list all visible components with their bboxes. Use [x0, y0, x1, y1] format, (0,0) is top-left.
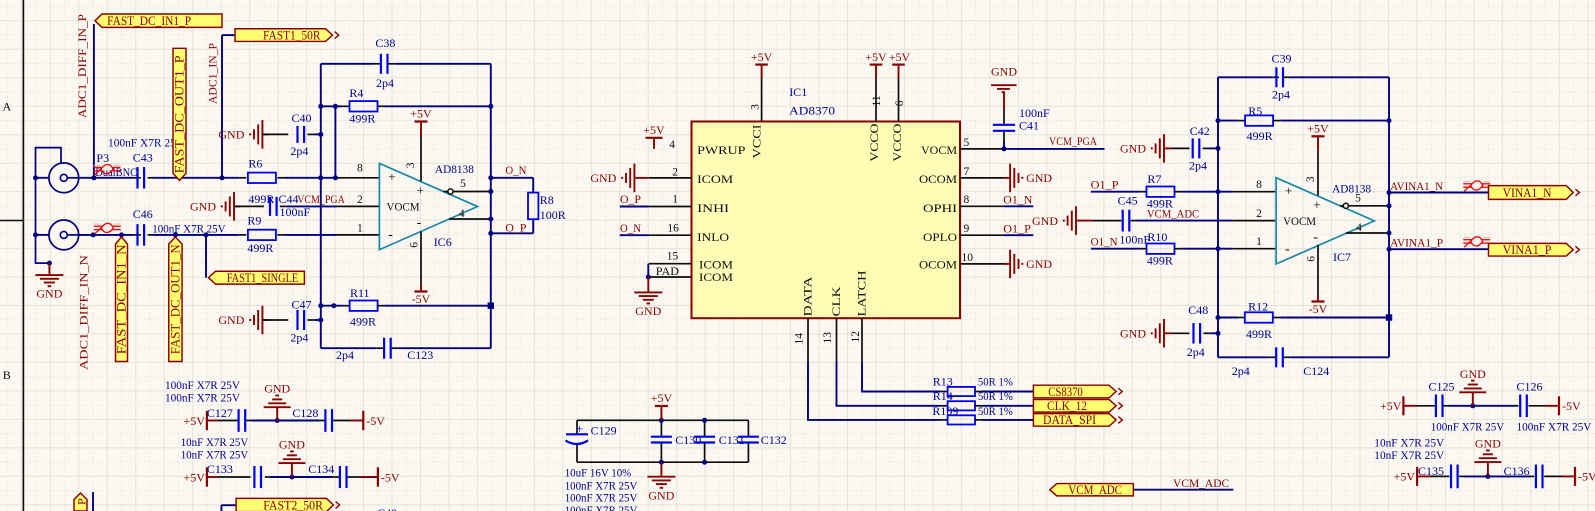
- svg-text:VOCM: VOCM: [921, 143, 957, 157]
- svg-text:R5: R5: [1248, 104, 1262, 118]
- svg-text:C130: C130: [675, 433, 701, 447]
- svg-text:3: 3: [405, 162, 417, 168]
- svg-text:IC1: IC1: [789, 85, 807, 99]
- svg-text:AD8138: AD8138: [435, 162, 474, 176]
- svg-text:8: 8: [964, 194, 970, 206]
- svg-text:C129: C129: [591, 423, 617, 437]
- svg-text:+5V: +5V: [889, 50, 911, 64]
- svg-text:-5V: -5V: [381, 470, 400, 484]
- svg-text:VCM_ADC: VCM_ADC: [1147, 207, 1199, 221]
- svg-text:AVINA1_P: AVINA1_P: [1390, 235, 1443, 249]
- svg-text:O_P: O_P: [620, 192, 641, 206]
- svg-text:2p4: 2p4: [1187, 345, 1205, 359]
- svg-text:GND: GND: [218, 313, 244, 327]
- svg-text:2p4: 2p4: [290, 144, 308, 158]
- svg-text:12: 12: [850, 331, 862, 343]
- svg-text:GND: GND: [1120, 142, 1146, 156]
- svg-text:LATCH: LATCH: [855, 270, 869, 316]
- svg-text:C44: C44: [279, 192, 299, 206]
- svg-text:P: P: [75, 498, 89, 505]
- svg-text:OPLO: OPLO: [923, 230, 957, 244]
- svg-text:2p4: 2p4: [1232, 364, 1250, 378]
- svg-text:-5V: -5V: [1578, 470, 1595, 484]
- svg-text:11: 11: [871, 95, 883, 106]
- svg-text:5: 5: [964, 137, 970, 149]
- svg-text:FAST2_50R: FAST2_50R: [263, 498, 324, 511]
- svg-text:C49: C49: [377, 506, 397, 511]
- svg-text:2p4: 2p4: [290, 331, 308, 345]
- svg-text:GND: GND: [590, 171, 616, 185]
- svg-text:C41: C41: [1019, 118, 1039, 132]
- svg-text:ICOM: ICOM: [697, 172, 733, 186]
- svg-text:C134: C134: [308, 462, 334, 476]
- svg-text:100nF: 100nF: [280, 205, 311, 219]
- svg-text:8: 8: [357, 163, 363, 175]
- svg-text:R9: R9: [247, 214, 261, 228]
- svg-text:9: 9: [964, 223, 970, 235]
- svg-text:100R: 100R: [540, 208, 566, 222]
- svg-text:GND: GND: [648, 488, 674, 502]
- svg-text:100nF X7R 25V: 100nF X7R 25V: [1517, 420, 1592, 434]
- svg-text:1: 1: [357, 223, 363, 235]
- svg-text:499R: 499R: [1246, 327, 1272, 341]
- svg-text:PWRUP: PWRUP: [697, 143, 746, 157]
- svg-text:OPHI: OPHI: [923, 201, 957, 215]
- svg-text:+5V: +5V: [1307, 121, 1329, 135]
- svg-text:B: B: [3, 368, 11, 382]
- svg-text:C133: C133: [207, 462, 233, 476]
- svg-text:50R 1%: 50R 1%: [978, 375, 1013, 389]
- svg-text:3: 3: [1305, 176, 1317, 182]
- svg-text:FAST1_SINGLE: FAST1_SINGLE: [227, 271, 299, 285]
- svg-text:10nF X7R 25V: 10nF X7R 25V: [181, 447, 249, 461]
- svg-text:4: 4: [669, 139, 675, 151]
- svg-text:5: 5: [1355, 192, 1361, 204]
- svg-text:C38: C38: [375, 36, 395, 50]
- svg-text:VCCO: VCCO: [867, 123, 881, 161]
- svg-text:-5V: -5V: [1562, 399, 1581, 413]
- svg-text:INLO: INLO: [697, 230, 729, 244]
- svg-text:ADC1_DIFF_IN_P: ADC1_DIFF_IN_P: [75, 14, 89, 118]
- svg-text:O_N: O_N: [620, 221, 641, 235]
- svg-text:INHI: INHI: [697, 201, 729, 215]
- svg-text:+5V: +5V: [643, 123, 665, 137]
- svg-text:+5V: +5V: [865, 50, 887, 64]
- svg-text:C124: C124: [1303, 364, 1329, 378]
- svg-text:+5V: +5V: [183, 414, 205, 428]
- svg-text:VCCI: VCCI: [750, 124, 764, 158]
- svg-text:GND: GND: [36, 287, 62, 301]
- svg-text:GND: GND: [1032, 214, 1058, 228]
- svg-text:-: -: [1313, 230, 1318, 245]
- svg-text:VCCO: VCCO: [890, 123, 904, 161]
- svg-text:+5V: +5V: [1394, 470, 1416, 484]
- svg-text:R13: R13: [933, 375, 953, 389]
- svg-text:499R: 499R: [349, 112, 375, 126]
- svg-text:PAD: PAD: [656, 264, 680, 278]
- svg-text:C128: C128: [292, 406, 318, 420]
- svg-text:100nF X7R 25V: 100nF X7R 25V: [165, 391, 240, 405]
- svg-text:GND: GND: [991, 64, 1017, 78]
- svg-text:C126: C126: [1517, 380, 1543, 394]
- svg-text:VOCM: VOCM: [1283, 214, 1316, 228]
- svg-text:499R: 499R: [350, 315, 376, 329]
- svg-text:O1_N: O1_N: [1091, 235, 1118, 249]
- svg-text:+: +: [417, 183, 424, 198]
- svg-text:5: 5: [460, 178, 466, 190]
- svg-text:O1_P: O1_P: [1003, 221, 1031, 235]
- svg-text:C39: C39: [1272, 52, 1292, 66]
- svg-text:O_N: O_N: [505, 163, 526, 177]
- svg-text:ADC1_IN_P: ADC1_IN_P: [206, 43, 220, 104]
- svg-text:VCM_PGA: VCM_PGA: [297, 192, 345, 206]
- svg-text:DATA: DATA: [801, 276, 815, 316]
- svg-text:2p4: 2p4: [336, 348, 354, 362]
- svg-text:6: 6: [894, 100, 906, 106]
- svg-text:2: 2: [357, 194, 363, 206]
- svg-text:FAST_DC_OUT1_P: FAST_DC_OUT1_P: [173, 55, 187, 173]
- svg-text:OCOM: OCOM: [919, 258, 957, 272]
- svg-text:C42: C42: [1190, 124, 1210, 138]
- svg-text:-: -: [388, 228, 393, 243]
- svg-text:1: 1: [1256, 236, 1262, 248]
- svg-text:AD8370: AD8370: [789, 104, 835, 118]
- svg-text:R8: R8: [540, 193, 554, 207]
- svg-text:-: -: [417, 216, 422, 231]
- svg-text:GND: GND: [279, 438, 305, 452]
- svg-text:VINA1_P: VINA1_P: [1503, 243, 1552, 257]
- svg-text:C127: C127: [207, 406, 233, 420]
- svg-text:13: 13: [822, 332, 834, 344]
- svg-text:C123: C123: [407, 348, 433, 362]
- svg-text:C47: C47: [292, 298, 312, 312]
- svg-text:ICOM: ICOM: [699, 270, 733, 284]
- svg-text:R12: R12: [1248, 299, 1268, 313]
- svg-text:GND: GND: [1026, 257, 1052, 271]
- svg-text:OCOM: OCOM: [919, 172, 957, 186]
- svg-text:GND: GND: [190, 200, 216, 214]
- svg-text:499R: 499R: [247, 241, 273, 255]
- svg-text:C131: C131: [719, 433, 745, 447]
- svg-text:GND: GND: [218, 128, 244, 142]
- svg-text:+5V: +5V: [651, 391, 673, 405]
- svg-text:R6: R6: [248, 157, 262, 171]
- svg-text:R10: R10: [1147, 230, 1167, 244]
- svg-text:+: +: [1285, 183, 1292, 198]
- svg-text:-5V: -5V: [1309, 302, 1328, 316]
- svg-text:C125: C125: [1429, 380, 1455, 394]
- svg-text:C40: C40: [292, 111, 312, 125]
- svg-text:O1_N: O1_N: [1003, 192, 1032, 206]
- svg-text:C135: C135: [1418, 464, 1444, 478]
- svg-text:C136: C136: [1504, 464, 1530, 478]
- svg-text:FAST_DC_IN1_P: FAST_DC_IN1_P: [107, 14, 191, 28]
- svg-text:2: 2: [672, 166, 678, 178]
- svg-text:A: A: [2, 100, 11, 114]
- svg-text:IC6: IC6: [434, 235, 452, 249]
- svg-text:100nF X7R 25V: 100nF X7R 25V: [1431, 420, 1505, 434]
- svg-text:4: 4: [459, 208, 465, 220]
- svg-text:CLK_12: CLK_12: [1047, 399, 1087, 413]
- svg-text:14: 14: [794, 333, 806, 345]
- svg-text:P3: P3: [96, 151, 109, 165]
- svg-text:C48: C48: [1188, 303, 1208, 317]
- svg-text:499R: 499R: [1147, 253, 1173, 267]
- svg-text:499R: 499R: [1247, 129, 1273, 143]
- svg-text:CS8370: CS8370: [1048, 385, 1083, 399]
- svg-text:O_P: O_P: [505, 220, 526, 234]
- svg-text:100nF X7R 25V: 100nF X7R 25V: [152, 222, 226, 236]
- svg-text:C43: C43: [133, 150, 153, 164]
- svg-text:8: 8: [1256, 179, 1262, 191]
- svg-text:100nF X7R 25V: 100nF X7R 25V: [565, 503, 638, 511]
- svg-text:2p4: 2p4: [1272, 88, 1290, 102]
- svg-text:R4: R4: [349, 86, 363, 100]
- svg-text:+5V: +5V: [183, 470, 205, 484]
- svg-text:6: 6: [1306, 256, 1318, 262]
- svg-text:1: 1: [672, 193, 678, 205]
- svg-text:IC7: IC7: [1333, 250, 1351, 264]
- svg-text:VINA1_N: VINA1_N: [1503, 186, 1552, 200]
- svg-text:R11: R11: [350, 286, 370, 300]
- svg-text:2p4: 2p4: [376, 76, 394, 90]
- svg-text:CLK: CLK: [829, 286, 843, 316]
- svg-text:C45: C45: [1118, 194, 1138, 208]
- svg-text:+5V: +5V: [1380, 399, 1402, 413]
- svg-text:10uF 16V 10%: 10uF 16V 10%: [565, 465, 632, 479]
- svg-text:+: +: [388, 169, 395, 184]
- svg-text:O1_P: O1_P: [1091, 178, 1119, 192]
- svg-text:3: 3: [750, 104, 762, 110]
- svg-text:2: 2: [1256, 208, 1262, 220]
- svg-text:10nF X7R 25V: 10nF X7R 25V: [1374, 448, 1444, 462]
- svg-text:DATA_SPI: DATA_SPI: [1043, 413, 1096, 427]
- svg-text:R14: R14: [933, 389, 953, 403]
- svg-text:VOCM: VOCM: [387, 200, 420, 214]
- svg-text:C46: C46: [133, 207, 153, 221]
- svg-text:+5V: +5V: [751, 50, 773, 64]
- svg-text:AD8138: AD8138: [1332, 181, 1371, 195]
- svg-text:VCM_ADC: VCM_ADC: [1173, 476, 1229, 490]
- svg-text:R7: R7: [1147, 172, 1161, 186]
- svg-text:50R 1%: 50R 1%: [978, 404, 1013, 418]
- svg-text:GND: GND: [1120, 327, 1146, 341]
- svg-text:50R 1%: 50R 1%: [978, 389, 1013, 403]
- svg-text:FAST_DC_OUT1_N: FAST_DC_OUT1_N: [169, 244, 183, 354]
- svg-text:GND: GND: [1460, 367, 1486, 381]
- svg-text:FAST1_50R: FAST1_50R: [263, 28, 321, 42]
- svg-text:R109: R109: [932, 404, 958, 418]
- svg-text:GND: GND: [264, 382, 290, 396]
- svg-text:GND: GND: [1475, 437, 1501, 451]
- svg-text:ADC1_DIFF_IN_N: ADC1_DIFF_IN_N: [77, 255, 91, 370]
- svg-text:-5V: -5V: [412, 292, 431, 306]
- svg-text:+: +: [1313, 197, 1320, 212]
- svg-text:FAST_DC_IN1_N: FAST_DC_IN1_N: [115, 244, 129, 354]
- svg-text:GND: GND: [635, 304, 661, 318]
- svg-text:GND: GND: [1026, 171, 1052, 185]
- svg-text:-5V: -5V: [366, 414, 385, 428]
- svg-text:-: -: [1285, 242, 1290, 257]
- svg-text:VCM_ADC: VCM_ADC: [1068, 483, 1122, 497]
- svg-text:+5V: +5V: [410, 107, 432, 121]
- svg-text:VCM_PGA: VCM_PGA: [1049, 134, 1097, 148]
- svg-text:2p4: 2p4: [1189, 159, 1207, 173]
- svg-text:4: 4: [1356, 222, 1362, 234]
- svg-text:10: 10: [962, 252, 974, 264]
- svg-text:C132: C132: [761, 433, 787, 447]
- svg-text:+: +: [576, 421, 583, 436]
- svg-text:15: 15: [667, 251, 679, 263]
- svg-text:16: 16: [667, 223, 679, 235]
- svg-text:100nF X7R 25V: 100nF X7R 25V: [165, 378, 240, 392]
- svg-text:7: 7: [964, 166, 970, 178]
- svg-text:6: 6: [409, 242, 421, 248]
- svg-text:AVINA1_N: AVINA1_N: [1390, 179, 1443, 193]
